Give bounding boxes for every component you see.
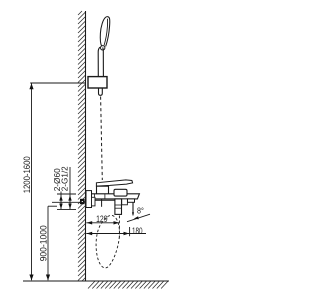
connector nut — [92, 197, 96, 206]
shower head — [100, 17, 110, 50]
up arrow on right leader — [68, 195, 71, 200]
svg-text:129: 129 — [96, 213, 108, 224]
dim line 900-1000 — [47, 206, 49, 280]
bracket height reference line — [30, 82, 85, 84]
svg-text:180: 180 — [132, 225, 143, 236]
down arrow on right leader — [68, 204, 71, 210]
faucet cartridge — [97, 186, 109, 194]
dashed outlet extension line — [118, 216, 120, 238]
tick bottom — [57, 208, 76, 210]
tub outlet — [115, 199, 122, 215]
8 deg arrow line — [127, 214, 150, 222]
dashed water envelope ellipse — [96, 215, 119, 268]
wall face line — [85, 11, 87, 281]
floor line — [23, 280, 169, 282]
svg-text:2-G1/2: 2-G1/2 — [60, 166, 69, 191]
spout under step — [122, 199, 128, 205]
handle stub below bracket — [99, 88, 103, 95]
spout lip — [128, 199, 135, 202]
floor hatching — [88, 281, 168, 288]
svg-text:8°: 8° — [137, 206, 144, 215]
faucet body bar — [87, 194, 139, 199]
inlet leader line right — [69, 167, 71, 209]
wall hatching — [78, 11, 86, 281]
angle extension line — [132, 202, 134, 215]
inlet leader line left — [60, 192, 62, 210]
inlet fitting (black square in wall) — [80, 199, 85, 204]
dim 129 — [86, 222, 119, 224]
dim line 1200-1600 — [31, 84, 33, 281]
180 extension tick — [129, 227, 131, 236]
wall escutcheon — [86, 191, 92, 208]
up arrow on left leader — [59, 195, 62, 200]
body division lines — [94, 194, 96, 199]
faucet lever handle — [96, 180, 132, 186]
down arrow on left leader — [59, 204, 62, 210]
svg-text:900-1000: 900-1000 — [38, 225, 48, 261]
body bottom edge — [88, 199, 115, 201]
shower head pivot circle — [101, 46, 105, 50]
spout right block — [114, 189, 127, 196]
shower handle — [98, 47, 103, 77]
wall bracket — [88, 77, 107, 88]
dim 180 — [86, 233, 146, 235]
diverter pin under body — [101, 199, 103, 206]
svg-text:1200-1600: 1200-1600 — [21, 156, 32, 193]
inlet centerline — [52, 201, 86, 203]
dashed hose line — [101, 97, 103, 181]
tick top — [57, 193, 76, 195]
